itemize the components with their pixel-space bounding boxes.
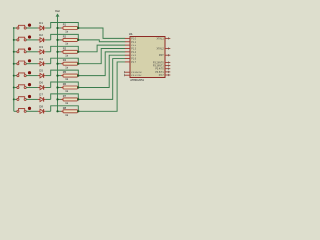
wire: row 6 horizontal from bus to switch [14, 87, 17, 89]
pin P1.0 [125, 38, 137, 40]
wire: row 4 Vcc rail to resistor [58, 63, 62, 65]
switch row 3 [17, 47, 31, 53]
svg-text:XTAL2: XTAL2 [157, 48, 165, 51]
wire: row 3 resistor to chip pin P1.2 [80, 45, 126, 52]
resistor R8 [61, 106, 80, 117]
pin P1.4 [125, 52, 137, 54]
wire: row 6 resistor to chip pin P1.5 [80, 55, 126, 87]
wire: row 7 resistor to chip pin P1.6 [80, 59, 126, 100]
wire: row 5 Vcc rail to resistor [58, 75, 62, 77]
wire: row 2 diode to bypass riser [46, 39, 51, 41]
switch row 7 [17, 95, 31, 101]
node: row 1 bypass rejoin junction [77, 27, 79, 29]
wire: row 8 horizontal from bus to switch [14, 110, 17, 112]
wire: row 7 Vcc rail to resistor [58, 98, 62, 100]
resistor R1 [61, 23, 80, 34]
svg-text:P1.5: P1.5 [131, 55, 136, 57]
diode D8 [38, 104, 46, 113]
svg-text:RST: RST [159, 54, 164, 57]
wire: row 4 resistor to chip pin P1.3 [80, 48, 126, 63]
wire: row 2 horizontal from bus to switch [14, 39, 17, 41]
pin P3.3/INT1 [153, 65, 170, 68]
wire: row 4 bypass loop over resistor [51, 58, 79, 64]
wire: row 1 Vcc rail to resistor [58, 27, 62, 29]
svg-text:D5: D5 [39, 69, 43, 73]
wire: row 1 horizontal from bus to switch [14, 27, 17, 29]
svg-text:P1.4: P1.4 [131, 52, 136, 54]
node: row 8 Vcc rail junction [56, 110, 58, 112]
wire: row 3 Vcc rail to resistor [58, 51, 62, 53]
node: row 2 Vcc rail junction [56, 39, 58, 41]
diode D7 [38, 93, 46, 102]
resistor R6 [61, 82, 80, 93]
svg-text:P3.5/T1: P3.5/T1 [155, 71, 164, 74]
resistor R5 [61, 70, 80, 81]
svg-text:P3.0/RXD: P3.0/RXD [131, 72, 142, 74]
wire: row 2 bypass loop over resistor [51, 34, 79, 40]
wire: row 4 switch to diode [26, 63, 38, 65]
svg-text:P3.4/T0: P3.4/T0 [155, 68, 164, 71]
pin P3.2/INT0 [153, 61, 170, 64]
wire: left common bus [13, 28, 15, 111]
wire: row 3 horizontal from bus to switch [14, 51, 17, 53]
wire: row 5 resistor to chip pin P1.4 [80, 52, 126, 76]
node: row 7 Vcc rail junction [56, 98, 58, 100]
node: row 1 junction on left bus [13, 27, 15, 29]
node: row 7 bypass rejoin junction [77, 98, 79, 100]
node: row 6 bypass rejoin junction [77, 86, 79, 88]
resistor R2 [61, 34, 80, 45]
wire: row 8 switch to diode [26, 110, 38, 112]
pin P1.5 [125, 55, 137, 57]
pin P3.1/TXD [124, 74, 141, 77]
svg-text:P1.1: P1.1 [131, 42, 136, 44]
wire: row 1 switch to diode [26, 27, 38, 29]
wire: row 3 switch to diode [26, 51, 38, 53]
diode D4 [38, 57, 46, 66]
diode D5 [38, 69, 46, 78]
pin RST [159, 54, 170, 57]
wire: row 6 diode to bypass riser [46, 87, 51, 89]
diode D1 [38, 21, 46, 30]
wire: row 2 resistor to chip pin P1.1 [80, 40, 126, 42]
svg-text:P1.2: P1.2 [131, 45, 136, 47]
wire: row 2 Vcc rail to resistor [58, 39, 62, 41]
wire: row 7 switch to diode [26, 98, 38, 100]
svg-text:D2: D2 [39, 33, 43, 37]
node: row 3 junction on left bus [13, 51, 15, 53]
node: row 7 junction on left bus [13, 98, 15, 100]
wire: row 6 switch to diode [26, 87, 38, 89]
pin P1.7 [125, 62, 137, 64]
pin XTAL1 [157, 37, 171, 40]
node: row 5 junction on left bus [13, 75, 15, 77]
svg-text:P1.6: P1.6 [131, 59, 136, 61]
svg-text:P1.0: P1.0 [131, 38, 136, 40]
pin P1.6 [125, 59, 137, 61]
switch row 4 [17, 59, 31, 65]
node: row 3 Vcc rail junction [56, 51, 58, 53]
svg-text:D4: D4 [39, 57, 43, 61]
diode D2 [38, 33, 46, 42]
svg-text:U1: U1 [129, 32, 133, 36]
node: row 3 bypass rejoin junction [77, 51, 79, 53]
wire: row 1 resistor to chip pin P1.0 [80, 28, 126, 38]
wire: row 3 bypass loop over resistor [51, 46, 79, 52]
wire: row 1 diode to bypass riser [46, 27, 51, 29]
node: row 5 bypass rejoin junction [77, 75, 79, 77]
wire: row 2 switch to diode [26, 39, 38, 41]
pin P1.1 [125, 42, 137, 44]
node: row 4 junction on left bus [13, 63, 15, 65]
wire: row 8 bypass loop over resistor [51, 106, 79, 112]
wire: row 8 resistor to chip pin P1.7 [80, 62, 126, 111]
wire: row 5 horizontal from bus to switch [14, 75, 17, 77]
switch row 5 [17, 71, 31, 77]
svg-text:P1.7: P1.7 [131, 62, 136, 64]
wire: Vcc vertical rail [57, 16, 59, 111]
node: row 4 Vcc rail junction [56, 63, 58, 65]
wire: row 7 diode to bypass riser [46, 98, 51, 100]
svg-text:XTAL1: XTAL1 [157, 37, 165, 40]
node: row 1 Vcc rail junction [56, 27, 58, 29]
svg-text:D6: D6 [39, 81, 43, 85]
node: row 8 bypass rejoin junction [77, 110, 79, 112]
svg-text:Vcc: Vcc [55, 9, 61, 13]
switch row 1 [17, 24, 31, 30]
svg-text:P3.1/TXD: P3.1/TXD [131, 75, 141, 77]
wire: row 6 bypass loop over resistor [51, 82, 79, 88]
wire: row 8 diode to bypass riser [46, 110, 51, 112]
pin P3.7 [159, 74, 171, 77]
switch row 8 [17, 107, 31, 113]
pin P3.0/RXD [124, 71, 141, 74]
IC U1 AT89C2051 microcontroller body [129, 32, 165, 82]
node: row 2 bypass rejoin junction [77, 39, 79, 41]
pin P1.3 [125, 48, 137, 50]
wire: row 7 bypass loop over resistor [51, 94, 79, 100]
node: row 6 Vcc rail junction [56, 86, 58, 88]
node: row 5 Vcc rail junction [56, 75, 58, 77]
diode D6 [38, 81, 46, 90]
pin XTAL2 [157, 47, 171, 50]
wire: row 1 bypass loop over resistor [51, 23, 79, 29]
pin P1.2 [125, 45, 137, 47]
diode D3 [38, 45, 46, 54]
svg-text:P1.3: P1.3 [131, 48, 136, 50]
switch row 6 [17, 83, 31, 89]
wire: row 8 Vcc rail to resistor [58, 110, 62, 112]
switch row 2 [17, 35, 31, 41]
node: row 2 junction on left bus [13, 39, 15, 41]
resistor R7 [61, 94, 80, 105]
svg-text:P3.7: P3.7 [159, 74, 165, 77]
wire: row 3 diode to bypass riser [46, 51, 51, 53]
wire: row 4 horizontal from bus to switch [14, 63, 17, 65]
svg-text:D3: D3 [39, 45, 43, 49]
wire: row 7 horizontal from bus to switch [14, 98, 17, 100]
svg-text:D7: D7 [39, 93, 43, 97]
svg-text:D1: D1 [39, 21, 43, 25]
svg-text:D8: D8 [39, 104, 43, 108]
wire: row 5 bypass loop over resistor [51, 70, 79, 76]
svg-text:P3.2/INT0: P3.2/INT0 [153, 62, 164, 65]
resistor R3 [61, 46, 80, 57]
svg-text:P3.3/INT1: P3.3/INT1 [153, 65, 164, 68]
node: row 4 bypass rejoin junction [77, 63, 79, 65]
wire: row 6 Vcc rail to resistor [58, 87, 62, 89]
pin P3.4/T0 [155, 68, 170, 71]
wire: row 5 switch to diode [26, 75, 38, 77]
node: row 6 junction on left bus [13, 87, 15, 89]
wire: row 4 diode to bypass riser [46, 63, 51, 65]
wire: row 5 diode to bypass riser [46, 75, 51, 77]
power Vcc [55, 9, 61, 17]
pin P3.5/T1 [155, 71, 170, 74]
resistor R4 [61, 58, 80, 69]
